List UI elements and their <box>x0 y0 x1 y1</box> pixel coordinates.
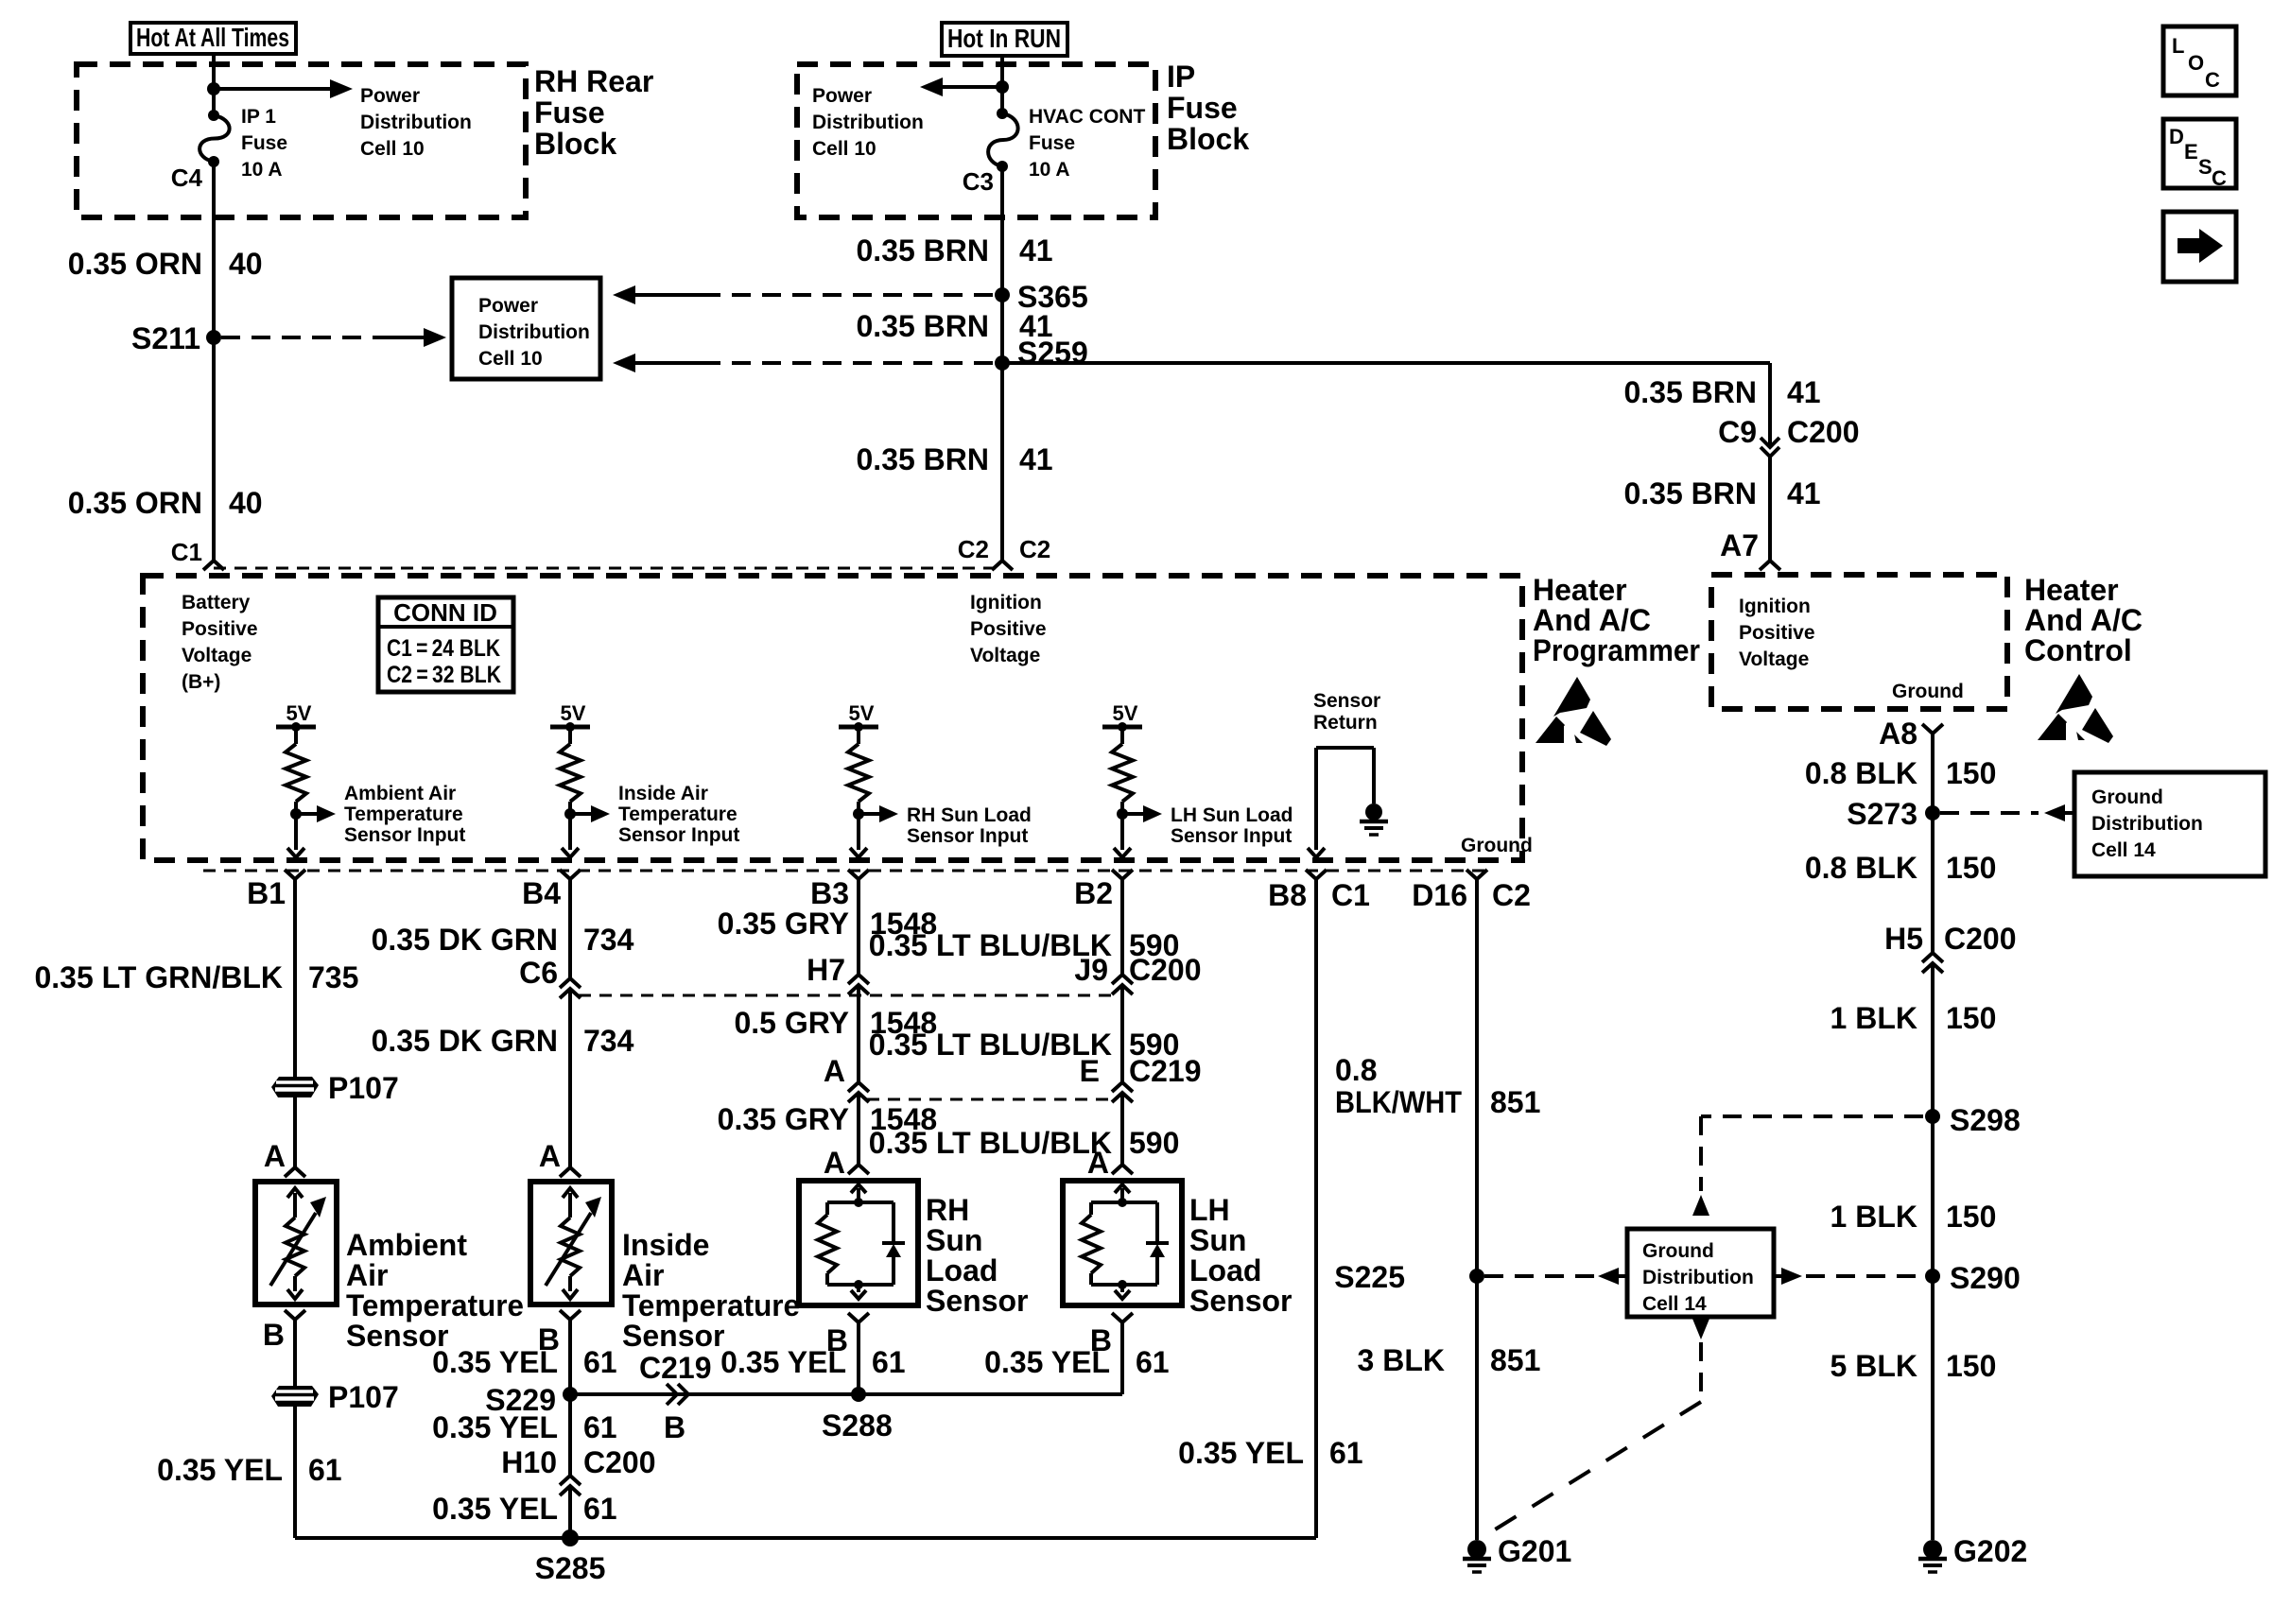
svg-text:0.35 LT BLU/BLK: 0.35 LT BLU/BLK <box>869 1028 1112 1062</box>
wire 0.35 ORN 40 upper segment <box>212 162 216 337</box>
label 0.35 DK GRN 734 (upper) <box>372 923 634 957</box>
wire 0.35 YEL 61 inside sensor to S229 <box>568 1320 572 1394</box>
signal tap arrow (Ambient Air) <box>296 805 336 822</box>
svg-text:Sensor: Sensor <box>926 1284 1028 1318</box>
svg-text:C2: C2 <box>1019 535 1050 563</box>
wire 0.35 DK GRN 734 C6 to sensor <box>568 989 572 1167</box>
svg-text:S: S <box>2198 155 2212 179</box>
inline connector H10 C200 <box>560 1476 581 1485</box>
splice S290 <box>1925 1269 1940 1284</box>
RH Sun Load Sensor box <box>799 1181 918 1305</box>
label 0.35 GRY 1548 (row3) <box>718 1102 938 1136</box>
svg-text:C1: C1 <box>171 538 202 566</box>
wire to module pin (RH Sun Load) <box>850 814 867 857</box>
Ground Distribution Cell 14 reference box (lower) <box>1627 1229 1774 1317</box>
label 0.8 BLK 150 (upper) <box>1805 756 1997 790</box>
svg-text:Ground: Ground <box>1642 1240 1714 1262</box>
svg-text:HVAC CONT: HVAC CONT <box>1029 106 1145 128</box>
label Heater And A/C Programmer <box>1533 573 1700 667</box>
label 0.35 BRN 41 (below S259) <box>857 442 1053 476</box>
pull-up resistor (Inside Air) <box>560 727 581 814</box>
svg-text:P107: P107 <box>328 1380 399 1414</box>
svg-text:Sun: Sun <box>1189 1223 1246 1257</box>
svg-text:0.35 LT BLU/BLK: 0.35 LT BLU/BLK <box>869 1126 1112 1160</box>
wire branch S259 to heater A/C control <box>1002 363 1770 447</box>
svg-text:Power: Power <box>812 85 872 107</box>
svg-text:B: B <box>664 1410 685 1444</box>
svg-text:G201: G201 <box>1498 1534 1571 1568</box>
5V supply rail for Ambient Air <box>276 701 316 732</box>
label 0.8 BLK 150 (lower) <box>1805 851 1997 885</box>
svg-text:5V: 5V <box>1113 701 1138 725</box>
svg-text:P107: P107 <box>328 1071 399 1105</box>
inline connector J9 C200 <box>1112 975 1133 984</box>
connector line C219 row <box>867 1098 1114 1101</box>
svg-text:Temperature: Temperature <box>346 1288 524 1322</box>
svg-text:61: 61 <box>1329 1436 1363 1470</box>
pin C2 labels <box>958 535 1051 563</box>
grommet P107 (upper) <box>271 1077 319 1097</box>
label Power Distribution Cell 10 (reference box) <box>478 295 590 370</box>
wire 0.35 LT BLU/BLK 590 J9 to E <box>1120 985 1124 1082</box>
svg-text:A: A <box>824 1054 845 1088</box>
svg-text:B: B <box>263 1318 285 1352</box>
svg-text:Temperature: Temperature <box>618 803 737 825</box>
svg-text:590: 590 <box>1129 1126 1179 1160</box>
label 0.5 GRY 1548 (row2) <box>734 1006 937 1040</box>
svg-text:Distribution: Distribution <box>360 112 472 133</box>
wire 0.35 LT BLU/BLK 590 B2 to J9 <box>1120 879 1124 975</box>
dashed reference S365 to Power Distribution cell <box>613 285 995 304</box>
svg-text:Fuse: Fuse <box>1167 91 1238 125</box>
inline connector H5 C200 <box>1922 953 1943 962</box>
junction node (Ambient Air) <box>290 808 302 820</box>
svg-text:Battery: Battery <box>182 592 251 613</box>
inline connector C219 on bus <box>667 1384 688 1405</box>
svg-text:Inside Air: Inside Air <box>618 783 708 804</box>
svg-text:Distribution: Distribution <box>2091 813 2203 835</box>
dashed reference S298 to ground distribution <box>1692 1116 1923 1216</box>
Inside Air Temperature Sensor box <box>530 1182 612 1304</box>
label Battery Positive Voltage (B+) <box>182 592 258 693</box>
wire 0.35 ORN 40 lower segment <box>212 337 216 561</box>
svg-text:Ground: Ground <box>2091 786 2163 808</box>
svg-text:RH: RH <box>926 1193 969 1227</box>
label 0.35 ORN 40 (lower) <box>68 486 263 520</box>
pull-up resistor (RH Sun Load) <box>848 727 869 814</box>
label LH Sun Load Sensor <box>1189 1193 1292 1318</box>
svg-text:Sensor Input: Sensor Input <box>344 824 465 846</box>
label 0.35 YEL 61 (ambient) <box>157 1453 341 1487</box>
svg-text:Positive: Positive <box>970 618 1047 640</box>
label 0.35 YEL 61 (above S285) <box>432 1492 616 1526</box>
label 0.35 BRN 41 and S259 <box>857 309 1088 370</box>
svg-text:C2: C2 <box>1492 878 1531 912</box>
svg-text:Return: Return <box>1313 712 1378 734</box>
label Ignition Positive Voltage (control) <box>1739 596 1815 670</box>
sensor return internal wire loop <box>1308 748 1374 857</box>
pin C2 of HVAC programmer connector <box>992 561 1013 570</box>
svg-text:C: C <box>2205 68 2220 92</box>
label 1 BLK 150 (lower) <box>1831 1200 1997 1234</box>
junction node on hot feed <box>207 82 220 95</box>
svg-text:Sensor: Sensor <box>1313 690 1380 712</box>
svg-text:Programmer: Programmer <box>1533 633 1700 667</box>
svg-text:And A/C: And A/C <box>2024 603 2143 637</box>
svg-text:IP 1: IP 1 <box>241 106 276 128</box>
svg-text:Ground: Ground <box>1892 681 1964 702</box>
svg-text:RH Sun Load: RH Sun Load <box>907 804 1032 826</box>
svg-text:Positive: Positive <box>182 618 258 640</box>
svg-text:Heater: Heater <box>2024 573 2119 607</box>
svg-text:150: 150 <box>1946 1200 1996 1234</box>
svg-text:0.35 GRY: 0.35 GRY <box>718 907 849 941</box>
svg-text:LH: LH <box>1189 1193 1230 1227</box>
splice S288 <box>851 1387 866 1402</box>
label C219 and B (bus connector) <box>639 1351 712 1444</box>
svg-text:Positive: Positive <box>1739 622 1815 644</box>
dashed reference S225 to ground distribution <box>1484 1268 1627 1285</box>
5V supply rail for RH Sun Load <box>839 701 878 732</box>
LH Sun Load Sensor box <box>1063 1181 1182 1305</box>
wire 0.35 YEL 61 S229 to S288 bus <box>570 1392 1122 1396</box>
5V supply rail for LH Sun Load <box>1102 701 1142 732</box>
inline connector E C219 <box>1112 1082 1133 1092</box>
label Ambient Air Temperature Sensor Input <box>344 783 465 846</box>
wire to module pin (LH Sun Load) <box>1114 814 1131 857</box>
pin B4 <box>522 870 581 910</box>
dashed reference S273 to ground distribution <box>1940 804 2074 821</box>
wire from Hot At All Times into fuse block <box>212 54 216 115</box>
label 0.35 LT BLU/BLK 590 (row1) <box>869 928 1180 962</box>
svg-text:Ignition: Ignition <box>1739 596 1811 617</box>
internal ground symbol (sensor return) <box>1360 803 1388 835</box>
svg-text:5 BLK: 5 BLK <box>1831 1349 1917 1383</box>
connector line between C1 and C2 pins <box>214 567 1002 570</box>
svg-text:734: 734 <box>583 1024 634 1058</box>
label RH Sun Load Sensor Input <box>907 804 1032 847</box>
svg-text:5V: 5V <box>286 701 312 725</box>
svg-text:150: 150 <box>1946 851 1996 885</box>
wire to module pin (Inside Air) <box>562 814 579 857</box>
svg-text:Cell 10: Cell 10 <box>478 348 543 370</box>
inline connector H7 C200 <box>848 975 869 984</box>
wire 1 BLK 150 S298 to S290 <box>1931 1116 1935 1276</box>
wire 0.35 GRY 1548 B3 to H7 <box>857 879 860 975</box>
svg-text:L: L <box>2172 34 2184 58</box>
svg-text:0.35 YEL: 0.35 YEL <box>432 1345 558 1379</box>
svg-text:0.35 LT GRN/BLK: 0.35 LT GRN/BLK <box>34 960 283 994</box>
pin B chevron (RH sensor) <box>826 1313 869 1357</box>
svg-text:A7: A7 <box>1720 528 1759 562</box>
pin A chevron (ambient) <box>285 1167 305 1177</box>
label 0.35 LT BLU/BLK 590 (row3) <box>869 1126 1180 1160</box>
splice S225 <box>1469 1269 1484 1284</box>
legend box LOC <box>2163 26 2236 95</box>
wire 0.35 GRY 1548 to RH sensor <box>857 1093 860 1165</box>
svg-text:3 BLK: 3 BLK <box>1358 1343 1445 1377</box>
junction node (Inside Air) <box>564 808 576 820</box>
svg-text:735: 735 <box>308 960 358 994</box>
svg-text:E: E <box>1080 1054 1100 1088</box>
svg-text:Air: Air <box>346 1258 388 1292</box>
svg-text:A: A <box>1087 1146 1109 1180</box>
svg-text:Distribution: Distribution <box>478 321 590 343</box>
label IP 1 Fuse 10 A <box>241 106 287 181</box>
label 0.35 YEL 61 (inside upper) <box>432 1345 616 1379</box>
svg-text:D16: D16 <box>1412 878 1467 912</box>
pin B8 C1 <box>1268 870 1370 912</box>
svg-text:Voltage: Voltage <box>970 645 1040 666</box>
label Power Distribution Cell 10 (in IP fuse block) <box>812 85 924 160</box>
pin A8 of heater A/C control <box>1879 717 1943 751</box>
svg-text:734: 734 <box>583 923 634 957</box>
svg-text:Temperature: Temperature <box>622 1288 800 1322</box>
label Sensor Return <box>1313 690 1380 734</box>
svg-text:Cell 10: Cell 10 <box>360 138 425 160</box>
svg-text:Fuse: Fuse <box>1029 132 1075 154</box>
label 0.35 GRY 1548 (row1) <box>718 907 938 941</box>
ground G202 <box>1918 1540 1947 1572</box>
svg-text:0.35 BRN: 0.35 BRN <box>857 442 990 476</box>
svg-text:C200: C200 <box>1787 415 1860 449</box>
svg-text:851: 851 <box>1490 1343 1540 1377</box>
svg-text:A: A <box>824 1146 845 1180</box>
inline connector A C219 (RH) <box>848 1082 869 1092</box>
pin A chevron (RH sensor) <box>848 1165 869 1174</box>
svg-text:B: B <box>1090 1323 1112 1357</box>
svg-text:40: 40 <box>229 486 263 520</box>
svg-text:B4: B4 <box>522 876 561 910</box>
svg-text:BLK/WHT: BLK/WHT <box>1335 1085 1462 1119</box>
label HVAC CONT Fuse 10 A <box>1029 106 1145 181</box>
label 0.35 BRN 41 (right upper) <box>1624 375 1821 409</box>
wire 0.35 BRN 41 to A7 <box>1768 457 1772 561</box>
label 1 BLK 150 (upper) <box>1831 1001 1997 1035</box>
svg-text:B8: B8 <box>1268 878 1307 912</box>
junction node (LH Sun Load) <box>1117 808 1128 820</box>
CONN ID table <box>378 597 513 692</box>
wire 1 BLK 150 H5 to S298 <box>1931 963 1935 1116</box>
ESD sensitivity symbol (control) <box>2038 674 2113 743</box>
svg-text:A8: A8 <box>1879 717 1917 751</box>
svg-text:0.35 YEL: 0.35 YEL <box>1178 1436 1304 1470</box>
svg-text:150: 150 <box>1946 756 1996 790</box>
svg-text:Power: Power <box>478 295 538 317</box>
pull-up resistor (LH Sun Load) <box>1112 727 1133 814</box>
svg-text:A: A <box>539 1139 561 1173</box>
svg-text:Cell 14: Cell 14 <box>1642 1293 1707 1315</box>
svg-text:Ignition: Ignition <box>970 592 1042 613</box>
label Power Distribution Cell 10 (in RH rear fuse block) <box>360 85 472 160</box>
pin A chevron (LH sensor) <box>1112 1165 1133 1174</box>
label J9 C200 <box>1074 953 1201 987</box>
wire 5 BLK 150 S290 to G202 <box>1931 1276 1935 1540</box>
svg-text:41: 41 <box>1019 442 1053 476</box>
svg-text:Power: Power <box>360 85 420 107</box>
svg-text:0.35 BRN: 0.35 BRN <box>857 309 990 343</box>
ground G201 <box>1463 1540 1491 1572</box>
wire ambient sensor B to P107 lower <box>293 1320 297 1386</box>
svg-text:Sensor: Sensor <box>622 1319 724 1353</box>
svg-text:0.35 YEL: 0.35 YEL <box>432 1410 558 1444</box>
label 0.35 LT GRN/BLK 735 <box>34 960 358 994</box>
wire 0.5 GRY 1548 H7 to A <box>857 985 860 1082</box>
svg-text:LH Sun Load: LH Sun Load <box>1171 804 1293 826</box>
svg-text:S290: S290 <box>1950 1261 2021 1295</box>
svg-text:Distribution: Distribution <box>812 112 924 133</box>
svg-text:C1: C1 <box>1331 878 1370 912</box>
label H5 C200 <box>1884 922 2016 956</box>
svg-text:S298: S298 <box>1950 1103 2021 1137</box>
svg-text:S273: S273 <box>1847 797 1917 831</box>
wire 0.8 BLK/WHT 851 D16 to S225 <box>1475 879 1479 1276</box>
wire arrow to Power Distribution Cell 10 (left) <box>214 79 353 98</box>
svg-text:61: 61 <box>583 1410 617 1444</box>
wire 3 BLK 851 S225 to G201 <box>1475 1276 1479 1540</box>
ESD sensitivity symbol (programmer) <box>1536 677 1611 746</box>
svg-text:C200: C200 <box>1944 922 2017 956</box>
svg-text:Cell 10: Cell 10 <box>812 138 876 160</box>
splice S259 <box>995 355 1010 371</box>
photocell network (RH) <box>818 1198 905 1299</box>
svg-text:0.35 ORN: 0.35 ORN <box>68 486 202 520</box>
legend box DESC <box>2163 119 2236 190</box>
svg-text:Cell 14: Cell 14 <box>2091 839 2156 861</box>
label 0.35 LT BLU/BLK 590 (row2) <box>869 1028 1180 1062</box>
dashed reference S211 to Power Distribution cell <box>221 328 446 347</box>
wire 0.35 YEL 61 S229 to H10 <box>568 1394 572 1476</box>
power feed label box: Hot In RUN <box>942 23 1067 56</box>
svg-text:Block: Block <box>534 127 616 161</box>
svg-text:0.35 YEL: 0.35 YEL <box>432 1492 558 1526</box>
label H10 C200 <box>501 1445 655 1479</box>
svg-text:0.35 BRN: 0.35 BRN <box>857 233 990 268</box>
wire to module pin (Ambient Air) <box>287 814 304 857</box>
power feed label box: Hot At All Times <box>130 23 296 54</box>
label Heater And A/C Control <box>2024 573 2143 667</box>
svg-text:Sensor: Sensor <box>1189 1284 1292 1318</box>
signal tap arrow (Inside Air) <box>570 805 610 822</box>
svg-text:Fuse: Fuse <box>241 132 287 154</box>
Ground Distribution Cell 14 reference box (upper) <box>2074 772 2265 876</box>
grommet P107 (lower) <box>271 1386 319 1407</box>
svg-text:Inside: Inside <box>622 1228 709 1262</box>
svg-text:Sensor Input: Sensor Input <box>1171 825 1292 847</box>
Power Distribution Cell 10 reference box <box>452 278 600 379</box>
label 0.35 BRN 41 (above S365) <box>857 233 1053 268</box>
svg-text:0.35 GRY: 0.35 GRY <box>718 1102 849 1136</box>
svg-text:Ambient Air: Ambient Air <box>344 783 456 804</box>
svg-text:0.35 BRN: 0.35 BRN <box>1624 476 1758 510</box>
label 0.35 YEL 61 (sensor return) <box>1178 1436 1362 1470</box>
thermistor arrow (ambient) <box>270 1197 326 1286</box>
svg-text:41: 41 <box>1019 233 1053 268</box>
fuse HVAC CONT Fuse 10 A <box>988 108 1018 172</box>
svg-text:C2 = 32 BLK: C2 = 32 BLK <box>387 662 501 688</box>
svg-text:1 BLK: 1 BLK <box>1831 1001 1917 1035</box>
svg-text:C1 = 24 BLK: C1 = 24 BLK <box>387 635 500 662</box>
svg-text:851: 851 <box>1490 1085 1540 1119</box>
svg-text:Hot At All Times: Hot At All Times <box>136 23 289 52</box>
pin B chevron (ambient) <box>263 1310 305 1352</box>
svg-text:0.35 ORN: 0.35 ORN <box>68 247 202 281</box>
photocell network (LH) <box>1082 1198 1169 1299</box>
5V supply rail for Inside Air <box>550 701 590 732</box>
wire 0.35 YEL 61 B8 to S285 run <box>1314 879 1318 1538</box>
pin D16 C2 <box>1412 870 1531 912</box>
svg-text:0.8 BLK: 0.8 BLK <box>1805 851 1917 885</box>
svg-text:O: O <box>2188 51 2204 75</box>
dashed reference S259 to Power Distribution cell <box>613 354 995 372</box>
svg-text:Load: Load <box>926 1253 998 1287</box>
pull-up resistor (Ambient Air) <box>286 727 306 814</box>
wire 0.35 YEL 61 to S285 run <box>295 1407 1316 1538</box>
label 0.35 ORN 40 (upper) <box>68 247 263 281</box>
svg-text:61: 61 <box>1136 1345 1170 1379</box>
svg-text:150: 150 <box>1946 1349 1996 1383</box>
svg-text:5V: 5V <box>561 701 586 725</box>
svg-text:Heater: Heater <box>1533 573 1627 607</box>
svg-text:Voltage: Voltage <box>1739 648 1809 670</box>
svg-text:C219: C219 <box>639 1351 712 1385</box>
svg-text:0.8 BLK: 0.8 BLK <box>1805 756 1917 790</box>
pin B chevron (inside) <box>538 1310 581 1356</box>
svg-text:B1: B1 <box>247 876 286 910</box>
label RH Rear Fuse Block <box>534 64 653 161</box>
svg-text:J9: J9 <box>1074 953 1108 987</box>
label Inside Air Temperature Sensor <box>622 1228 800 1353</box>
wire 0.35 YEL 61 H10 to S285 <box>568 1486 572 1538</box>
Ambient Air Temperature Sensor box <box>255 1182 337 1304</box>
label Inside Air Temperature Sensor Input <box>618 783 739 846</box>
svg-text:10 A: 10 A <box>1029 159 1070 181</box>
svg-text:C: C <box>2212 166 2227 190</box>
svg-text:Air: Air <box>622 1258 664 1292</box>
svg-text:61: 61 <box>308 1453 342 1487</box>
legend box forward arrow <box>2163 212 2236 282</box>
RH Rear Fuse Block dashed box <box>77 64 526 217</box>
svg-text:61: 61 <box>872 1345 906 1379</box>
fuse IP 1 Fuse 10 A <box>200 110 230 167</box>
svg-text:H7: H7 <box>807 953 845 987</box>
svg-text:C2: C2 <box>958 535 989 563</box>
pin C1 of HVAC programmer connector <box>203 561 224 570</box>
svg-text:Temperature: Temperature <box>344 803 463 825</box>
splice S365 <box>995 287 1010 302</box>
wire 0.8 BLK 150 S273 to H5 <box>1931 813 1935 953</box>
wire from Hot In RUN into IP fuse block <box>1000 56 1004 113</box>
svg-text:S285: S285 <box>535 1551 606 1585</box>
svg-text:Fuse: Fuse <box>534 95 605 130</box>
pin B3 <box>810 870 869 910</box>
IP Fuse Block dashed box <box>797 64 1155 217</box>
svg-text:IP: IP <box>1167 60 1195 94</box>
svg-text:C6: C6 <box>519 956 558 990</box>
label 0.8 BLK/WHT 851 <box>1335 1053 1540 1119</box>
svg-text:41: 41 <box>1787 476 1821 510</box>
label 3 BLK 851 <box>1358 1343 1541 1377</box>
connector line C200 row <box>579 994 1114 997</box>
label 0.35 DK GRN 734 (lower) <box>372 1024 634 1058</box>
pin B chevron (LH sensor) <box>1090 1313 1133 1357</box>
svg-text:C219: C219 <box>1129 1054 1202 1088</box>
wire RH sensor B to S288 <box>857 1322 860 1394</box>
svg-text:1 BLK: 1 BLK <box>1831 1200 1917 1234</box>
svg-text:Load: Load <box>1189 1253 1261 1287</box>
pin B2 <box>1074 870 1133 910</box>
svg-text:Hot In RUN: Hot In RUN <box>947 24 1061 53</box>
